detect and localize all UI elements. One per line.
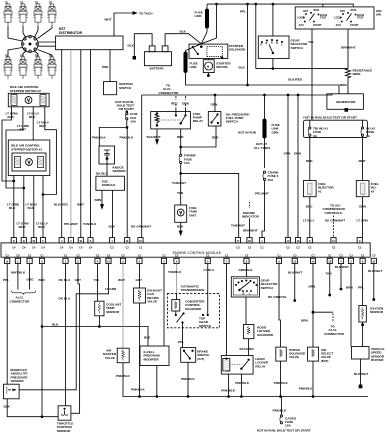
svg-text:WHT: WHT xyxy=(359,159,366,163)
svg-text:C1: C1 xyxy=(64,253,68,257)
svg-text:BLK: BLK xyxy=(28,206,35,210)
svg-text:M: M xyxy=(139,239,141,243)
svg-text:SENSOR: SENSOR xyxy=(113,169,127,173)
svg-text:BLK/WHT: BLK/WHT xyxy=(354,372,368,376)
svg-text:BLK: BLK xyxy=(144,336,151,340)
svg-text:C3: C3 xyxy=(372,253,376,257)
spark plug 7 xyxy=(33,53,42,79)
svg-text:C1: C1 xyxy=(206,253,210,257)
IAC1 wires to ECM pins xyxy=(7,176,48,238)
svg-text:DK BLU: DK BLU xyxy=(59,278,71,282)
svg-text:C2: C2 xyxy=(296,245,300,249)
ECM bottom pin 18 xyxy=(327,253,332,263)
svg-text:BLK/RED: BLK/RED xyxy=(288,78,303,82)
svg-text:BLK: BLK xyxy=(128,44,135,48)
svg-text:10A: 10A xyxy=(130,119,136,123)
to ALCL connector branch xyxy=(313,312,345,336)
svg-text:TO TACH: TO TACH xyxy=(139,11,153,15)
svg-text:D: D xyxy=(276,41,278,45)
svg-text:TAN: TAN xyxy=(177,191,184,195)
svg-text:DK GRN/YEL: DK GRN/YEL xyxy=(268,295,287,299)
svg-text:C3: C3 xyxy=(236,245,240,249)
svg-text:RED: RED xyxy=(212,136,219,140)
svg-text:BLK: BLK xyxy=(4,405,11,409)
svg-text:M: M xyxy=(207,65,209,69)
svg-text:(A/T): (A/T) xyxy=(197,357,204,361)
wire GRY ECM to TPS xyxy=(71,264,82,414)
wire BRN to VSS buffer xyxy=(346,264,353,347)
svg-text:C1: C1 xyxy=(361,253,365,257)
wire ORN to ECM pin 16 xyxy=(294,94,302,238)
throttle position sensor xyxy=(57,406,74,433)
svg-text:PNK/BLK: PNK/BLK xyxy=(181,377,196,381)
svg-text:ACC: ACC xyxy=(336,23,342,27)
svg-text:WHT: WHT xyxy=(19,128,26,132)
wire YEL ignition to TBI fuses xyxy=(308,29,314,120)
ECM top pin 20 xyxy=(247,238,252,250)
plug wires row1 xyxy=(8,26,52,41)
svg-text:C1: C1 xyxy=(225,253,229,257)
svg-text:TAN: TAN xyxy=(326,272,333,276)
svg-text:A: A xyxy=(41,260,43,264)
svg-text:C4: C4 xyxy=(79,245,83,249)
svg-text:TEST: TEST xyxy=(357,16,364,20)
engine indicator xyxy=(242,202,260,238)
wire GRN/BLK to gear selector switch 2 xyxy=(239,264,254,277)
svg-text:BLK/ORN: BLK/ORN xyxy=(240,347,255,351)
svg-text:BLK: BLK xyxy=(39,278,46,282)
svg-text:TAN/BLK: TAN/BLK xyxy=(83,222,97,226)
svg-text:WHT: WHT xyxy=(38,225,45,229)
svg-text:INDICATOR: INDICATOR xyxy=(242,215,260,219)
wire BRN/WHT ignition to resistance wire xyxy=(341,29,356,69)
wire fuse link ORN / crank fuse xyxy=(254,94,280,238)
svg-text:VALVE: VALVE xyxy=(289,355,299,359)
hood louver relay xyxy=(221,356,269,375)
svg-text:BLK: BLK xyxy=(180,30,187,34)
ECM top pin W xyxy=(78,238,83,250)
ECM top pin B xyxy=(21,238,26,250)
ESC module xyxy=(96,176,125,190)
ECM top pin 4 xyxy=(109,238,114,250)
svg-text:C2: C2 xyxy=(6,253,10,257)
svg-text:SOLENOID: SOLENOID xyxy=(229,48,246,52)
ECM bottom pin 7 xyxy=(27,253,32,263)
fuel pump fuse xyxy=(172,154,196,205)
svg-text:HOT IN RUN: HOT IN RUN xyxy=(238,131,257,135)
top gear switch xyxy=(175,294,212,328)
svg-text:PNK/BLK: PNK/BLK xyxy=(274,381,289,385)
svg-text:ALL TIMES: ALL TIMES xyxy=(254,146,270,150)
svg-text:ORN: ORN xyxy=(294,152,302,156)
svg-text:GRN: GRN xyxy=(359,205,367,209)
svg-text:D1: D1 xyxy=(5,0,9,4)
svg-text:HOT IN RUN, BULB TEST OR START: HOT IN RUN, BULB TEST OR START xyxy=(303,116,357,120)
IAC2 wire LT GRN/BLK xyxy=(2,107,18,181)
svg-text:LT BLU: LT BLU xyxy=(303,219,315,223)
svg-text:A: A xyxy=(97,260,99,264)
svg-text:PNK/BLK: PNK/BLK xyxy=(273,408,288,412)
svg-text:K: K xyxy=(90,239,92,243)
ECM bottom pin 9 xyxy=(174,253,179,263)
svg-text:C2: C2 xyxy=(332,245,336,249)
coolant temp sensor xyxy=(95,301,122,326)
svg-text:M: M xyxy=(126,239,128,243)
svg-text:C4: C4 xyxy=(41,245,45,249)
svg-text:SENSOR: SENSOR xyxy=(370,310,384,314)
fuse link F1 xyxy=(195,4,209,44)
wire BLK/RED EST to ECM pin J xyxy=(54,50,69,238)
ECM bottom pin 3 xyxy=(161,253,166,263)
svg-text:10A: 10A xyxy=(184,161,190,165)
wire GRN/YEL to purge solenoid xyxy=(268,264,287,348)
wire WHT/BLK to ALCL xyxy=(11,264,26,290)
ECM bottom pin 9 xyxy=(276,253,281,263)
svg-text:WHT: WHT xyxy=(105,18,112,22)
svg-text:RELAY: RELAY xyxy=(255,364,266,368)
ECM bottom pin 8 xyxy=(75,253,80,263)
svg-text:C2: C2 xyxy=(245,253,249,257)
IAC2 wire LT BLU/BLK xyxy=(27,107,39,140)
wire BLK ignition feed (bus to generator line) xyxy=(239,3,249,86)
top bus PPL xyxy=(207,4,353,13)
ECM top pin 1 xyxy=(259,238,264,250)
ECM bottom pin 6 xyxy=(360,253,365,263)
wire PPL to brake switch xyxy=(178,328,184,348)
svg-text:C4: C4 xyxy=(22,245,26,249)
wire TAN stub xyxy=(326,264,333,296)
ECM top pin J xyxy=(59,238,64,250)
svg-text:C4: C4 xyxy=(32,245,36,249)
svg-text:WHT/BLK: WHT/BLK xyxy=(11,271,26,275)
svg-text:SWITCH: SWITCH xyxy=(119,86,132,90)
svg-text:START: START xyxy=(313,23,322,27)
knock sensor xyxy=(99,146,126,173)
svg-text:CONTROLS: CONTROLS xyxy=(325,211,342,215)
svg-text:C1: C1 xyxy=(138,253,142,257)
fuel injector #1 xyxy=(303,136,334,238)
ECM top pin D xyxy=(11,238,16,250)
svg-text:DK BLU: DK BLU xyxy=(96,171,108,175)
wire TAN/WHT branch to ECM xyxy=(180,173,245,238)
svg-text:ORN: ORN xyxy=(182,102,190,106)
svg-text:20A: 20A xyxy=(268,178,274,182)
svg-text:LINK: LINK xyxy=(195,14,203,18)
wire BLK ground trunk xyxy=(39,264,46,418)
svg-text:PPL/WHT: PPL/WHT xyxy=(64,222,78,226)
svg-text:LINK: LINK xyxy=(190,65,198,69)
ECM top pin 21 xyxy=(331,238,336,250)
vehicle speed sensor buffer xyxy=(352,347,385,388)
spark plug 6 xyxy=(18,53,27,79)
ECM bottom pin 9 xyxy=(120,253,125,263)
svg-text:N: N xyxy=(6,260,8,264)
svg-text:WHT: WHT xyxy=(118,278,125,282)
wire ORG to ALCL xyxy=(27,264,35,290)
starter motor xyxy=(203,58,231,76)
BLK line to E-CELL xyxy=(42,322,151,346)
svg-text:C2: C2 xyxy=(110,245,114,249)
svg-text:PNK/BLK: PNK/BLK xyxy=(221,389,236,393)
E-CELL program modifier xyxy=(140,346,169,397)
svg-text:C4: C4 xyxy=(69,245,73,249)
svg-text:D7: D7 xyxy=(49,0,53,4)
svg-text:UNIT: UNIT xyxy=(189,213,196,217)
wire PPL ECM to MAP xyxy=(3,264,9,385)
wire PNK/BLK split xyxy=(92,127,134,238)
ECM top pin W xyxy=(31,238,36,250)
wire ORN to ECM pin 10 xyxy=(284,94,292,238)
svg-text:B: B xyxy=(23,239,25,243)
wire BLK/RED to generator xyxy=(288,78,303,82)
wire LT BLU to top gear switch xyxy=(204,264,216,294)
svg-text:OFF: OFF xyxy=(340,9,346,13)
svg-text:BRN: BRN xyxy=(301,318,308,322)
svg-text:PNK/BLK: PNK/BLK xyxy=(120,136,135,140)
purge solenoid valve xyxy=(274,347,306,397)
svg-text:N: N xyxy=(271,41,273,45)
svg-text:PNK: PNK xyxy=(102,65,109,69)
svg-text:YEL: YEL xyxy=(308,40,314,44)
ECM bottom pin 2 xyxy=(348,253,353,263)
svg-text:PPL/WHT: PPL/WHT xyxy=(255,192,269,196)
svg-text:C4: C4 xyxy=(89,245,93,249)
fuel tank unit xyxy=(175,205,198,235)
svg-text:DK GRN/WHT: DK GRN/WHT xyxy=(325,219,345,223)
svg-text:LT GRN: LT GRN xyxy=(357,219,369,223)
ECM top pin 2 xyxy=(68,238,73,250)
svg-text:C1: C1 xyxy=(162,253,166,257)
wire BLK battery neg stub xyxy=(128,34,153,59)
svg-text:PNK/BLK: PNK/BLK xyxy=(116,374,131,378)
svg-text:PNK/BLK: PNK/BLK xyxy=(131,387,146,391)
svg-text:BLK: BLK xyxy=(29,115,36,119)
svg-text:BLK: BLK xyxy=(52,322,59,326)
air select valve xyxy=(299,347,334,397)
svg-text:WHT: WHT xyxy=(19,225,26,229)
svg-text:LT GRN: LT GRN xyxy=(105,287,117,291)
wire BLK/WHT stub xyxy=(335,264,349,290)
ALCL connector brace xyxy=(10,291,36,304)
svg-text:TAN/WHT: TAN/WHT xyxy=(231,224,245,228)
ignition switch assembly xyxy=(295,4,382,29)
ECM bottom pin 3 xyxy=(63,253,68,263)
ECM bottom pin 7 xyxy=(224,253,229,263)
svg-text:(M/T): (M/T) xyxy=(321,359,328,363)
spark plug 3 xyxy=(33,0,42,26)
generator xyxy=(327,94,364,112)
svg-text:#2: #2 xyxy=(371,189,375,193)
svg-text:CONNECTOR: CONNECTOR xyxy=(324,332,345,336)
svg-text:STEPPER MOTOR #1: STEPPER MOTOR #1 xyxy=(11,147,42,151)
svg-text:BLK/WHT: BLK/WHT xyxy=(288,271,302,275)
ECM bottom pin 8 xyxy=(244,253,249,263)
hood louver solenoid xyxy=(240,325,274,356)
svg-text:DK BLU: DK BLU xyxy=(59,297,71,301)
svg-text:TAN/WHT: TAN/WHT xyxy=(172,181,186,185)
automatic transmission box xyxy=(167,285,219,328)
fuse link F2 (to generator line) xyxy=(184,44,339,94)
svg-text:C2: C2 xyxy=(175,253,179,257)
wire RED relay to fuel pump fuse xyxy=(177,129,184,154)
spark plug 1 xyxy=(3,0,12,26)
wire BLK battery pos to starter junction xyxy=(165,30,201,46)
IAC2 wire LT GRN/WHT xyxy=(6,107,29,188)
svg-text:BLK: BLK xyxy=(177,225,184,229)
ECM top pin 8 xyxy=(307,238,312,250)
ECM top pin M xyxy=(125,238,130,250)
svg-text:C2: C2 xyxy=(121,253,125,257)
svg-text:PNK/BLK: PNK/BLK xyxy=(92,136,107,140)
ECM top pin 10 xyxy=(285,238,290,250)
svg-text:MODIFIER: MODIFIER xyxy=(144,357,160,361)
ECM top pin K xyxy=(88,238,93,250)
ECM bottom pin N xyxy=(5,253,10,263)
svg-text:C8: C8 xyxy=(16,253,20,257)
svg-text:OFF: OFF xyxy=(303,9,309,13)
svg-text:RED: RED xyxy=(177,135,184,139)
svg-text:PNK/BLK: PNK/BLK xyxy=(299,387,314,391)
wire LT GRN MAP signal xyxy=(19,264,117,390)
distributor U1 xyxy=(22,36,39,53)
svg-text:10A: 10A xyxy=(285,424,291,428)
ECM bottom pin 2 xyxy=(137,253,142,263)
wire PPL ignition to starter junction xyxy=(201,3,217,44)
svg-text:BLK/WHT: BLK/WHT xyxy=(335,265,349,269)
ECM bottom pin A xyxy=(39,253,44,263)
svg-text:BLK: BLK xyxy=(9,206,16,210)
oil pressure fuel pump switch xyxy=(181,94,257,147)
svg-text:C2: C2 xyxy=(107,253,111,257)
wire TAN/BLK EST to ECM pin K xyxy=(83,50,97,238)
svg-text:BRN: BRN xyxy=(95,198,102,202)
svg-text:BUFFER: BUFFER xyxy=(371,358,384,362)
svg-text:C4: C4 xyxy=(12,245,16,249)
svg-text:C4: C4 xyxy=(60,245,64,249)
ECM bottom pin 2 xyxy=(15,253,20,263)
starter solenoid xyxy=(189,44,246,59)
svg-text:BLK/WHT: BLK/WHT xyxy=(368,269,382,273)
ECM top pin M xyxy=(138,238,143,250)
ECM bottom pin A xyxy=(95,253,100,263)
wire ECM to E-CELL xyxy=(163,264,165,346)
svg-text:ENGINE CONTROL MODULE: ENGINE CONTROL MODULE xyxy=(173,251,222,255)
wire GRY to EGR xyxy=(136,264,144,288)
MAP ground xyxy=(4,399,59,417)
svg-text:WIRE: WIRE xyxy=(353,72,361,76)
IAC2 wire LT BLU/WHT xyxy=(37,107,56,195)
svg-text:VALVE: VALVE xyxy=(105,356,115,360)
EGR valve xyxy=(131,288,162,397)
svg-text:YEL: YEL xyxy=(94,278,100,282)
svg-text:D3: D3 xyxy=(20,0,24,4)
wire WHT (gray) to air master valve xyxy=(118,264,125,349)
ESC ground xyxy=(95,190,104,208)
svg-text:C1: C1 xyxy=(260,245,264,249)
svg-text:CONNECTOR: CONNECTOR xyxy=(10,299,31,303)
wire BRN to air select valve xyxy=(301,264,316,348)
svg-text:RELAY: RELAY xyxy=(193,119,204,123)
svg-text:CONNECTOR: CONNECTOR xyxy=(159,91,180,95)
brake switch to bus PNK/BLK xyxy=(181,362,196,397)
svg-text:SW: SW xyxy=(376,13,381,17)
svg-text:C2: C2 xyxy=(28,253,32,257)
idle air control stepper motor #2 xyxy=(8,85,49,107)
svg-text:HOT IN RUN, BULB TEST OR START: HOT IN RUN, BULB TEST OR START xyxy=(257,428,311,432)
engine control module band xyxy=(1,243,370,257)
ignition switch (key) xyxy=(104,82,134,95)
svg-text:MODULE: MODULE xyxy=(102,183,115,187)
svg-text:BRN/WHT: BRN/WHT xyxy=(341,46,356,50)
svg-text:C2: C2 xyxy=(286,245,290,249)
svg-text:GENERATOR: GENERATOR xyxy=(336,100,356,104)
relay ground BLK/WHT xyxy=(147,129,161,144)
resistance wire xyxy=(340,69,372,94)
svg-text:BATTERY: BATTERY xyxy=(150,67,165,71)
wire PPL to oxygen sensor xyxy=(358,264,364,306)
wire BLK/WHT splice xyxy=(288,264,302,302)
svg-text:D: D xyxy=(243,291,245,295)
svg-text:C1: C1 xyxy=(40,253,44,257)
spark plug 5 xyxy=(3,53,12,79)
ECM top pin 9 xyxy=(357,238,362,250)
svg-text:SENSOR: SENSOR xyxy=(11,379,25,383)
svg-text:C1: C1 xyxy=(328,253,332,257)
svg-text:TEST: TEST xyxy=(320,16,327,20)
svg-text:PPL: PPL xyxy=(178,340,184,344)
wire BLK ESC to ECM xyxy=(109,190,116,238)
svg-text:LT BLU: LT BLU xyxy=(204,268,216,272)
wire PNK EST to ignition switch xyxy=(102,50,110,82)
svg-text:VALVE: VALVE xyxy=(147,300,157,304)
svg-text:C1: C1 xyxy=(277,253,281,257)
wire TAN/BLK to converter solenoid xyxy=(168,264,182,294)
svg-text:C1: C1 xyxy=(311,253,315,257)
svg-text:BRN: BRN xyxy=(346,286,353,290)
svg-text:C2: C2 xyxy=(358,245,362,249)
svg-text:PPL: PPL xyxy=(240,10,246,14)
PNK/BLK feed from gages fuse xyxy=(257,397,311,433)
EST distributor box xyxy=(56,27,123,50)
wire WHT EST to ECM pin W xyxy=(77,50,84,238)
svg-text:C3: C3 xyxy=(349,253,353,257)
svg-text:C2: C2 xyxy=(126,245,130,249)
wire bus to accessory line xyxy=(255,3,348,68)
svg-text:SENSOR: SENSOR xyxy=(106,310,120,314)
svg-text:C2: C2 xyxy=(308,245,312,249)
svg-text:PPL: PPL xyxy=(3,278,9,282)
svg-text:SWITCH: SWITCH xyxy=(291,46,304,50)
ECM bottom pin 5 xyxy=(205,253,210,263)
svg-text:ACC: ACC xyxy=(299,23,305,27)
ECM IGN fuse xyxy=(115,100,138,128)
TBI fuse block xyxy=(303,116,375,138)
svg-text:MOTOR: MOTOR xyxy=(216,65,228,69)
svg-text:SENSOR: SENSOR xyxy=(57,429,71,433)
TO ALCL connector label xyxy=(159,84,190,109)
svg-text:GRN/BLK: GRN/BLK xyxy=(239,268,254,272)
ECM top pin F xyxy=(40,238,45,250)
spark plug 2 xyxy=(18,0,27,26)
wire PPL/WHT (gray) EST to ECM pin 2 xyxy=(64,50,78,238)
svg-text:DISTRIBUTOR: DISTRIBUTOR xyxy=(59,31,83,35)
wire to hood louver solenoid xyxy=(245,297,247,325)
ECM bottom pin 14 xyxy=(310,253,315,263)
ECM bottom pin 13 xyxy=(292,253,297,263)
spark plug 4 xyxy=(47,0,56,26)
svg-text:RED: RED xyxy=(171,102,178,106)
wire DK BLU knock to ESC xyxy=(96,164,108,176)
